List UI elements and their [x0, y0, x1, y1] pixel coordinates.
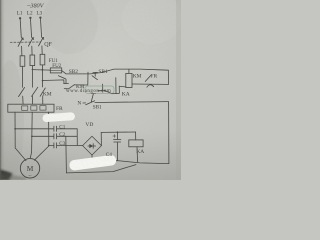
- label L3: [37, 10, 43, 16]
- wire L1 KM to FR: [22, 96, 24, 104]
- dc top wire: [101, 131, 135, 133]
- wire L3 QF to FU1: [41, 46, 43, 55]
- label KM (power): [43, 92, 52, 98]
- FR return wire: [132, 83, 169, 85]
- label SB2: [69, 69, 79, 75]
- relay coil KA: [129, 140, 143, 147]
- FR heater 1: [22, 106, 28, 110]
- terminal L2: [29, 17, 31, 19]
- label KA (coil): [136, 149, 144, 155]
- dc bottom wire: [92, 161, 169, 164]
- fuse FU1 pole2: [30, 55, 35, 66]
- label C3: [59, 141, 65, 147]
- rail right corner down: [167, 70, 169, 84]
- control rail (row 1): [62, 69, 169, 74]
- pushbutton SB1 (top row): [92, 72, 98, 79]
- label FR (contact): [150, 74, 157, 80]
- wire L3 FU1 to KM: [42, 65, 44, 87]
- QF linkage dashed: [10, 41, 40, 43]
- label FU1: [49, 59, 58, 64]
- capacitor bus vertical: [76, 129, 78, 146]
- bridge rectifier VD diamond: [83, 136, 102, 155]
- contactor KM pole2: [32, 87, 38, 96]
- label KM (coil): [133, 74, 142, 80]
- contactor KM pole3: [40, 88, 45, 96]
- label SB1 (top row): [98, 69, 108, 75]
- label VD: [85, 122, 93, 128]
- label N: [77, 100, 81, 106]
- thermal overload FR box: [8, 104, 54, 112]
- wire motor phase 3: [34, 112, 48, 160]
- wire motor phase 1: [15, 112, 26, 160]
- fuse FU1 pole3: [40, 54, 45, 65]
- capacitor C2: [54, 134, 77, 139]
- label FR (power): [56, 106, 63, 112]
- wire L1 QF to FU1: [21, 46, 23, 56]
- FR heater 2: [31, 106, 37, 110]
- label SB1 (neutral): [93, 104, 102, 110]
- wire L2 KM to FR: [32, 96, 34, 104]
- bottom-left dark shadow blob: [0, 170, 13, 181]
- contact KM aux: [64, 72, 88, 89]
- fuse FU1 pole1: [20, 56, 25, 67]
- wire L3 drop to QF: [41, 19, 42, 37]
- terminal L3: [39, 16, 41, 18]
- bridge diode symbol: [88, 144, 96, 149]
- white blob 1: [42, 112, 75, 122]
- label C2: [59, 132, 65, 138]
- film grain: [0, 0, 181, 180]
- tap wire C1: [15, 128, 54, 130]
- pushbutton SB1 (neutral): [86, 93, 96, 104]
- wire L3 KM to FR: [42, 96, 44, 104]
- capacitor C3: [54, 143, 77, 148]
- breaker QF pole 1: [18, 38, 23, 47]
- motor M: [20, 159, 39, 178]
- wire KA branch left vertical: [102, 84, 104, 92]
- wire bridge right vertex up: [100, 132, 102, 145]
- watermark green stamp: [66, 86, 114, 94]
- tap wire C3: [49, 144, 54, 146]
- terminal L1: [19, 17, 21, 19]
- wire L2 FU1 to KM: [31, 66, 33, 88]
- label L2: [27, 11, 33, 17]
- label C1: [59, 124, 65, 130]
- label FU2: [52, 64, 61, 69]
- wire motor phase 2: [30, 112, 32, 159]
- corner down to KA coil: [135, 132, 137, 140]
- pushbutton SB2: [58, 76, 68, 84]
- wire bus to bridge: [77, 144, 82, 146]
- capacitor C1: [54, 126, 77, 131]
- breaker QF pole 2: [28, 38, 33, 47]
- outer loop left vertical: [65, 136, 68, 173]
- control tap wire from L2: [32, 69, 50, 72]
- FR heater 3: [40, 106, 46, 110]
- paper background: [0, 0, 181, 180]
- outer loop bottom wire: [66, 165, 136, 173]
- wire L1 FU1 to KM: [22, 66, 24, 87]
- KA contact row: [98, 78, 126, 94]
- label KA (contact): [122, 91, 130, 97]
- left dark scan edge: [0, 0, 5, 180]
- wire bridge bottom vertex down: [91, 155, 93, 161]
- contact FR (NC with thermal): [145, 75, 151, 81]
- label ~380V: [27, 3, 45, 10]
- capacitor C4: [114, 132, 121, 160]
- breaker QF pole 3: [39, 37, 44, 46]
- junction on L3: [42, 69, 44, 71]
- neutral rail: [83, 102, 86, 104]
- coil KM: [126, 73, 132, 87]
- contactor KM pole1: [19, 87, 25, 96]
- right edge vertical: [168, 102, 170, 164]
- wire L2 QF to FU1: [31, 46, 33, 55]
- wire L2 drop to QF: [31, 19, 32, 37]
- label L1: [17, 11, 23, 17]
- tap wire C2: [32, 135, 54, 137]
- fuse FU2 horizontal: [50, 68, 61, 73]
- wire L1 drop to QF: [20, 20, 21, 38]
- label QF: [44, 42, 52, 48]
- white blob 2: [69, 154, 117, 171]
- aux tap wire from L3: [43, 80, 65, 84]
